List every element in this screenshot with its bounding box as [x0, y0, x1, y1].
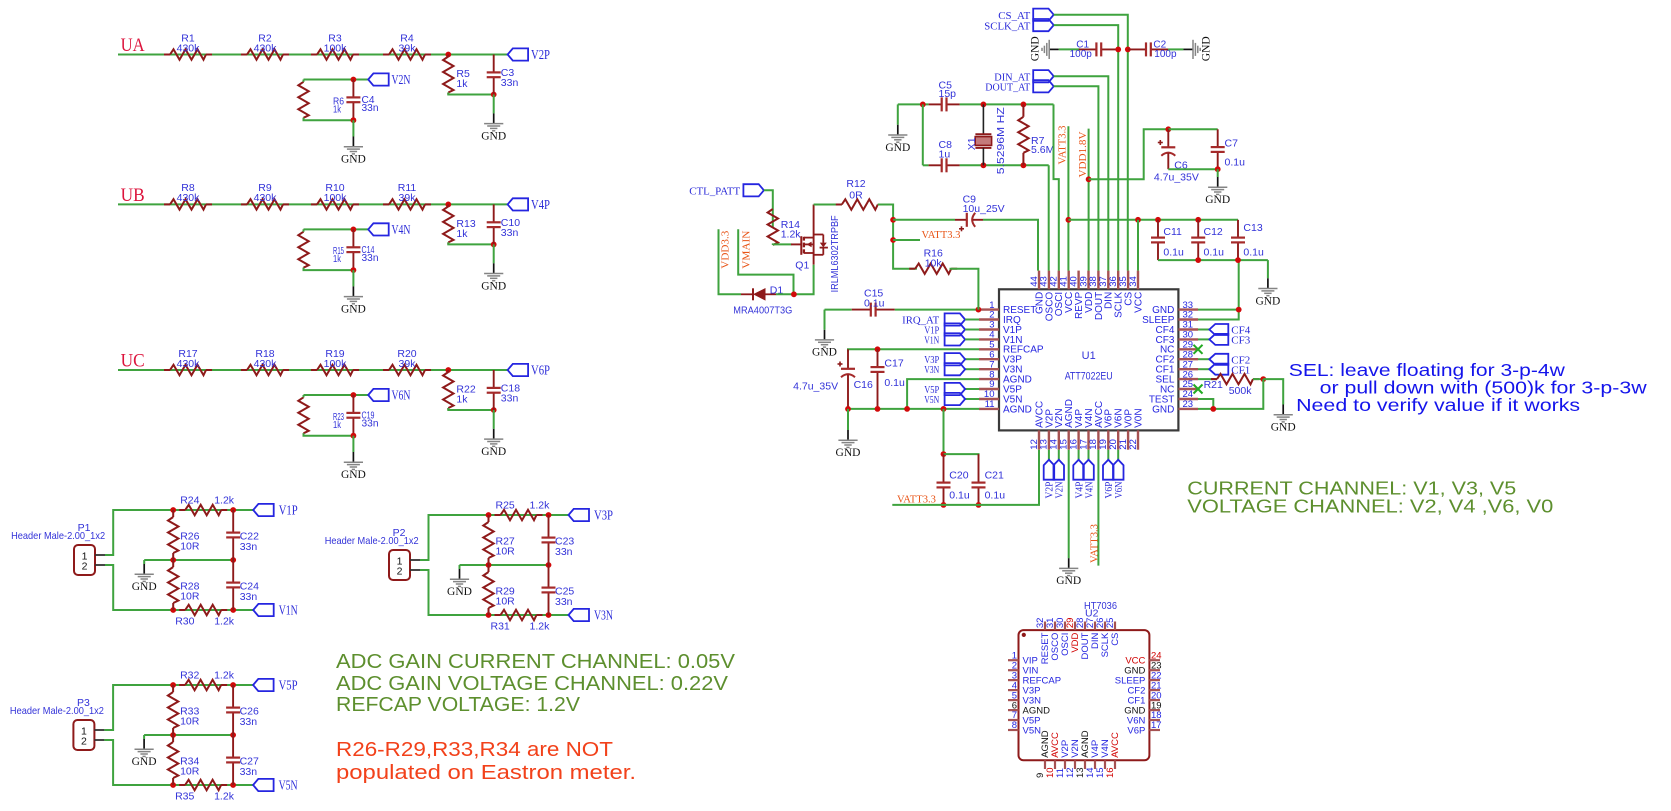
ground — [812, 330, 837, 359]
hier label V4N — [368, 223, 410, 238]
capacitor C13 — [1231, 220, 1264, 260]
wire — [1263, 379, 1283, 404]
junction — [486, 562, 492, 568]
svg-text:V6N: V6N — [392, 389, 411, 404]
note SEL — [1289, 360, 1647, 415]
junction — [941, 502, 947, 508]
hier label V4N — [1083, 460, 1095, 499]
svg-text:1u: 1u — [939, 148, 951, 160]
resistor R34 — [168, 735, 200, 785]
svg-text:UA: UA — [121, 36, 146, 56]
hier label V6P — [1103, 460, 1115, 499]
hier label V1P — [253, 504, 298, 519]
svg-text:MRA4007T3G: MRA4007T3G — [733, 305, 792, 317]
note not populated — [336, 739, 636, 784]
svg-text:100k: 100k — [324, 42, 348, 54]
junction — [1165, 126, 1171, 132]
ground — [481, 429, 506, 458]
svg-text:33n: 33n — [501, 227, 519, 239]
capacitor C8 — [929, 139, 960, 173]
svg-text:100k: 100k — [324, 358, 348, 370]
svg-text:GND: GND — [481, 446, 506, 458]
svg-text:IRLML6302TRPBF: IRLML6302TRPBF — [829, 215, 841, 292]
junction — [1260, 376, 1266, 382]
IC U1 right pins — [1142, 300, 1198, 416]
svg-text:33n: 33n — [362, 102, 379, 114]
svg-text:16: 16 — [1105, 767, 1116, 778]
wire — [943, 409, 945, 454]
svg-text:V2N: V2N — [392, 73, 411, 88]
wire — [965, 388, 979, 390]
resistor R8 — [164, 182, 212, 209]
hier label V3P — [569, 509, 614, 524]
svg-text:V3P: V3P — [594, 509, 613, 524]
wire VATT3.3 rail — [892, 450, 1039, 505]
wire — [104, 685, 173, 730]
ground — [341, 137, 366, 166]
wire xtal bottom rail — [923, 164, 929, 166]
wire — [824, 310, 826, 330]
resistor R14 — [768, 209, 802, 245]
capacitor C18 — [487, 370, 521, 410]
hier label CS_AT — [998, 9, 1053, 22]
svg-text:U1: U1 — [1082, 350, 1096, 362]
junction — [351, 392, 357, 398]
wire — [1107, 450, 1109, 460]
junction — [845, 406, 851, 412]
wire GND23 — [1198, 408, 1213, 410]
capacitor C14 — [346, 229, 378, 270]
svg-text:0.1u: 0.1u — [1243, 246, 1264, 258]
resistor R7 — [1018, 104, 1054, 165]
junction — [351, 117, 357, 123]
svg-text:GND: GND — [341, 303, 366, 315]
capacitor C6 — [1154, 129, 1199, 183]
svg-text:Header Male-2.00_1x2: Header Male-2.00_1x2 — [10, 705, 104, 717]
IC U2 bottom pins — [1035, 730, 1121, 778]
svg-text:33n: 33n — [501, 393, 519, 405]
wire VDD — [1088, 129, 1090, 271]
note channels — [1187, 479, 1553, 517]
svg-text:430k: 430k — [254, 42, 278, 54]
svg-text:0.1u: 0.1u — [1204, 246, 1225, 258]
hier label V6P — [508, 364, 551, 379]
resistor R20 — [383, 348, 431, 375]
resistor R19 — [311, 348, 359, 375]
connector P2 — [325, 527, 420, 580]
svg-text:VMAIN: VMAIN — [740, 231, 752, 269]
capacitor C11 — [1151, 220, 1184, 260]
svg-text:Need to verify value if it wor: Need to verify value if it works — [1296, 395, 1580, 415]
junction — [351, 77, 357, 83]
capacitor C7 — [1211, 129, 1245, 169]
wire — [776, 265, 814, 295]
svg-text:CURRENT CHANNEL: V1, V3, V5: CURRENT CHANNEL: V1, V3, V5 — [1187, 479, 1516, 499]
svg-text:R31: R31 — [491, 621, 510, 633]
junction — [791, 291, 797, 297]
junction — [170, 732, 176, 738]
IC U2 ref — [1085, 607, 1099, 619]
wire REFCAP — [848, 349, 979, 351]
wire VDD3.3 — [719, 229, 742, 294]
ground — [341, 452, 366, 481]
svg-text:GND: GND — [1271, 422, 1296, 434]
svg-text:DOUT_AT: DOUT_AT — [985, 82, 1030, 94]
wire — [1198, 338, 1209, 340]
resistor R30 — [175, 605, 235, 628]
capacitor C15 — [852, 288, 895, 317]
svg-text:GND: GND — [812, 347, 837, 359]
wire — [895, 309, 979, 311]
capacitor C22 — [226, 510, 259, 560]
svg-text:0.1u: 0.1u — [864, 298, 885, 310]
connector P3 — [10, 697, 105, 750]
junction — [1125, 47, 1131, 53]
wire — [1168, 128, 1217, 130]
wire — [878, 205, 917, 269]
resistor R27 — [483, 515, 515, 565]
wire — [303, 395, 305, 397]
svg-text:GND: GND — [132, 581, 157, 593]
wire — [105, 510, 173, 555]
svg-text:AGND: AGND — [1003, 404, 1032, 415]
resistor R3 — [311, 32, 359, 59]
svg-text:AVCC: AVCC — [1110, 732, 1121, 758]
svg-text:1k: 1k — [333, 253, 342, 265]
ground — [447, 569, 472, 598]
junction — [491, 242, 497, 248]
svg-text:33n: 33n — [501, 77, 519, 89]
svg-text:SCLK_AT: SCLK_AT — [984, 20, 1030, 32]
svg-text:V1N: V1N — [924, 335, 939, 346]
resistor R25 — [495, 500, 551, 521]
svg-text:populated on Eastron meter.: populated on Eastron meter. — [336, 762, 636, 784]
svg-text:V6P: V6P — [531, 364, 550, 379]
junction — [890, 217, 896, 223]
wire xtal bottom rail — [960, 164, 1049, 166]
hier label V5N — [253, 779, 298, 794]
svg-text:39k: 39k — [399, 192, 417, 204]
svg-text:GND: GND — [1255, 295, 1280, 307]
ground — [1030, 36, 1059, 61]
diode D1 — [733, 284, 792, 316]
junction — [1210, 406, 1216, 412]
hier label CTL_PATT — [689, 184, 764, 197]
connector P1 — [11, 522, 105, 575]
svg-text:1.2k: 1.2k — [214, 670, 235, 682]
wire — [1097, 450, 1099, 566]
junction — [546, 512, 552, 518]
svg-text:33n: 33n — [240, 766, 258, 778]
resistor R5 — [443, 55, 470, 95]
wire — [493, 95, 495, 114]
junction — [1021, 162, 1027, 168]
capacitor C16 — [793, 349, 873, 409]
capacitor C17 — [871, 349, 905, 409]
wire — [173, 684, 253, 686]
junction — [1236, 307, 1242, 313]
capacitor C26 — [226, 685, 259, 735]
svg-text:33n: 33n — [240, 541, 258, 553]
wire — [1158, 259, 1268, 261]
junction — [904, 406, 910, 412]
resistor R4 — [383, 32, 431, 59]
svg-text:10R: 10R — [180, 541, 200, 553]
resistor R10 — [311, 182, 359, 209]
svg-text:R25: R25 — [496, 500, 515, 512]
IC U1 left pins — [979, 300, 1044, 416]
svg-text:1k: 1k — [456, 228, 468, 240]
ground — [132, 739, 157, 768]
power label VATT3.3 — [1057, 125, 1069, 164]
svg-text:GND: GND — [1205, 194, 1230, 206]
junction — [351, 433, 357, 439]
wire AGND rail — [848, 408, 979, 410]
svg-text:C20: C20 — [949, 470, 968, 482]
junction — [1195, 257, 1201, 263]
svg-text:C11: C11 — [1163, 226, 1182, 238]
resistor R6 — [298, 80, 344, 121]
junction — [941, 451, 947, 457]
wire UA main line — [118, 54, 508, 56]
wire — [489, 614, 569, 616]
wire — [893, 239, 920, 241]
junction — [1155, 217, 1161, 223]
svg-text:R12: R12 — [846, 178, 865, 190]
IC U2 top pins — [1035, 618, 1121, 665]
wire — [825, 309, 852, 311]
IC U1 top pins — [1029, 271, 1145, 322]
resistor R22 — [443, 370, 476, 410]
svg-text:V5N: V5N — [1023, 725, 1042, 736]
svg-text:430k: 430k — [177, 358, 201, 370]
svg-text:V4N: V4N — [1084, 481, 1095, 498]
hier label CF1 — [1209, 364, 1250, 377]
svg-text:1.2k: 1.2k — [214, 616, 235, 628]
wire — [773, 243, 792, 246]
hier label V6N — [368, 389, 410, 404]
wire — [1267, 260, 1269, 278]
resistor R1 — [164, 32, 212, 59]
wire — [144, 734, 233, 736]
svg-text:GND: GND — [481, 130, 506, 142]
wire — [420, 570, 489, 615]
svg-text:22: 22 — [1128, 439, 1139, 450]
resistor R26 — [168, 510, 200, 560]
hier label CF4 — [1209, 324, 1250, 337]
svg-text:GND: GND — [341, 154, 366, 166]
wire — [1198, 368, 1209, 370]
junction — [546, 562, 552, 568]
wire — [459, 565, 461, 569]
svg-text:R35: R35 — [175, 791, 194, 803]
IC U2 right pins — [1115, 650, 1162, 736]
resistor R35 — [175, 780, 235, 803]
wire — [897, 104, 899, 124]
svg-text:GND: GND — [481, 280, 506, 292]
IC U1 body — [999, 289, 1178, 430]
wire — [105, 565, 173, 610]
junction — [1066, 217, 1072, 223]
svg-text:V3N: V3N — [594, 609, 613, 624]
wire — [1058, 450, 1060, 460]
junction — [230, 607, 236, 613]
power label VATT3.3 — [922, 229, 961, 241]
svg-text:Header Male-2.00_1x2: Header Male-2.00_1x2 — [11, 530, 105, 542]
resistor R11 — [383, 182, 431, 209]
power label VDD1.8V — [1077, 131, 1089, 177]
svg-text:1k: 1k — [333, 419, 342, 431]
svg-text:10k: 10k — [925, 257, 943, 269]
svg-text:2: 2 — [81, 736, 87, 748]
wire UC main line — [118, 369, 508, 371]
resistor R12 — [836, 178, 884, 210]
svg-text:33n: 33n — [240, 591, 258, 603]
capacitor C19 — [346, 395, 378, 436]
wire — [448, 242, 493, 244]
IC U2 value — [1084, 600, 1117, 612]
svg-text:33n: 33n — [555, 546, 573, 558]
svg-text:VATT3.3: VATT3.3 — [1088, 524, 1100, 563]
wire — [1088, 450, 1090, 460]
svg-text:10u_25V: 10u_25V — [963, 203, 1005, 215]
svg-text:5.5296M HZ: 5.5296M HZ — [995, 107, 1007, 175]
wire — [1213, 379, 1263, 409]
ground — [1205, 177, 1230, 206]
junction — [486, 612, 492, 618]
wire — [489, 514, 569, 516]
svg-text:430k: 430k — [177, 192, 201, 204]
svg-text:10R: 10R — [180, 766, 200, 778]
svg-text:V1N: V1N — [279, 604, 298, 619]
IC U1 value — [1065, 370, 1113, 382]
junction — [170, 782, 176, 788]
svg-text:V5N: V5N — [924, 395, 939, 406]
wire — [144, 559, 233, 561]
junction — [546, 612, 552, 618]
ground — [1271, 405, 1296, 434]
hier label V3N — [924, 363, 965, 376]
svg-text:UB: UB — [121, 186, 145, 206]
ground — [836, 430, 861, 459]
wire — [304, 268, 354, 270]
wire — [764, 190, 773, 227]
svg-text:R32: R32 — [180, 670, 199, 682]
wire — [1137, 220, 1139, 271]
svg-text:V6N: V6N — [1114, 481, 1125, 498]
IC U1 bottom pins — [1029, 399, 1145, 450]
capacitor C2 — [1128, 40, 1177, 60]
svg-text:39k: 39k — [399, 42, 417, 54]
hier label DIN_AT — [994, 70, 1053, 83]
IC U1 ref — [1082, 350, 1096, 362]
hier label V2N — [1054, 460, 1066, 499]
svg-text:33n: 33n — [555, 596, 573, 608]
svg-text:4.7u_35V: 4.7u_35V — [1154, 172, 1199, 184]
power label VMAIN — [740, 231, 752, 269]
resistor R13 — [443, 204, 476, 244]
svg-text:GND: GND — [341, 469, 366, 481]
junction — [170, 607, 176, 613]
wire VCC rail — [1068, 219, 1238, 221]
wire — [303, 229, 305, 231]
svg-text:VATT3.3: VATT3.3 — [897, 494, 936, 506]
ground — [481, 113, 506, 142]
ground — [1183, 36, 1212, 61]
svg-text:C21: C21 — [985, 470, 1004, 482]
junction — [170, 682, 176, 688]
svg-text:0.1u: 0.1u — [884, 377, 905, 389]
svg-text:GND: GND — [836, 447, 861, 459]
svg-text:VDD3.3: VDD3.3 — [720, 230, 732, 268]
ground — [132, 564, 157, 593]
hier label V1N — [924, 333, 965, 346]
IC U2 body — [1019, 630, 1150, 760]
ground — [481, 263, 506, 292]
wire DIN — [1054, 76, 1109, 270]
svg-text:Q1: Q1 — [795, 260, 809, 272]
no-connect pin29 — [1194, 345, 1203, 354]
hier label V5P — [924, 383, 965, 396]
wire — [950, 269, 979, 310]
hier label V2P — [1044, 460, 1056, 499]
svg-text:V6P: V6P — [1127, 725, 1145, 736]
svg-text:1.2k: 1.2k — [781, 229, 802, 241]
capacitor C21 — [972, 454, 1006, 505]
wire — [893, 219, 955, 221]
wire — [965, 329, 979, 331]
junction — [976, 502, 982, 508]
svg-text:39k: 39k — [399, 358, 417, 370]
net label UA — [121, 36, 146, 56]
svg-text:V0N: V0N — [1133, 408, 1144, 427]
svg-text:1.2k: 1.2k — [530, 621, 551, 633]
wire VMAIN — [738, 229, 793, 294]
wire — [173, 509, 253, 511]
wire — [304, 394, 369, 396]
junction — [230, 557, 236, 563]
svg-text:0.1u: 0.1u — [1225, 157, 1246, 169]
resistor R17 — [164, 348, 212, 375]
svg-text:CF3: CF3 — [1231, 335, 1250, 347]
svg-text:R30: R30 — [175, 616, 194, 628]
wire — [944, 454, 979, 456]
svg-text:1k: 1k — [456, 78, 468, 90]
wire DOUT — [1054, 86, 1099, 270]
net label UB — [121, 186, 145, 206]
svg-text:430k: 430k — [177, 42, 201, 54]
junction — [445, 202, 451, 208]
junction — [1215, 166, 1221, 172]
wire — [448, 408, 493, 410]
wire TEST — [1198, 399, 1213, 409]
svg-text:8: 8 — [1012, 720, 1017, 731]
resistor R23 — [298, 395, 344, 436]
svg-text:CTL_PATT: CTL_PATT — [689, 185, 740, 197]
note ADC gains — [336, 651, 736, 716]
svg-text:500k: 500k — [1229, 385, 1253, 397]
capacitor C12 — [1191, 220, 1224, 260]
capacitor C4 — [346, 80, 378, 121]
ground — [341, 286, 366, 315]
resistor R24 — [179, 495, 235, 516]
wire — [1168, 48, 1183, 50]
wire UB main line — [118, 203, 508, 205]
wire VDD1.8V — [1089, 129, 1169, 179]
resistor R15 — [298, 229, 344, 270]
svg-text:VATT3.3: VATT3.3 — [1057, 125, 1069, 164]
svg-text:1k: 1k — [456, 394, 468, 406]
